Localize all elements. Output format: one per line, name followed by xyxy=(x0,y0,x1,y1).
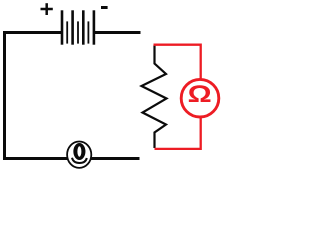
label: battery minus terminal xyxy=(101,6,108,9)
wire: red top wire from resistor top to ohmmeter xyxy=(154,45,201,79)
wire: left vertical wire xyxy=(3,31,6,160)
resistor R1 zigzag xyxy=(142,45,167,148)
ohmmeter M1 circle xyxy=(181,79,219,117)
wire: bottom wire, open end at right xyxy=(3,157,140,160)
galvanometer M2 Q symbol bowl xyxy=(73,143,85,160)
wire: top wire from battery left plate to left corner xyxy=(3,31,61,34)
label: battery plus terminal xyxy=(41,3,53,15)
galvanometer M2 Q symbol tail xyxy=(72,158,87,163)
svg-text:Ω: Ω xyxy=(188,80,212,108)
galvanometer M2 circle xyxy=(67,142,91,168)
wire: red bottom wire from ohmmeter to resistor bottom xyxy=(155,117,201,149)
battery B1 plates xyxy=(62,10,94,44)
wire: top wire from battery right plate, open end at right xyxy=(95,31,141,34)
